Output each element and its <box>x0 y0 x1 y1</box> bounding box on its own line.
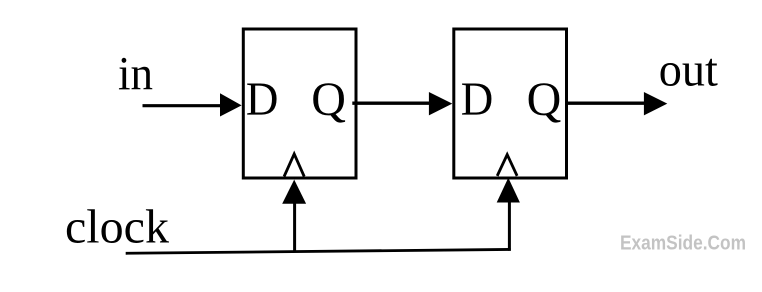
wire U2.Q to out <box>565 101 646 104</box>
svg-text:D: D <box>246 73 279 126</box>
D flip-flop U1 (box) <box>243 29 356 178</box>
arrowhead into U2 D pin <box>429 92 452 115</box>
svg-text:D: D <box>461 73 494 126</box>
arrowhead clock into U2 <box>497 178 520 203</box>
wire clock bus (horizontal) <box>126 249 511 253</box>
clock edge triangle U2 (open) <box>497 155 517 176</box>
svg-text:in: in <box>118 48 153 101</box>
svg-text:Q: Q <box>527 73 562 126</box>
wire clock branch to U2 (vertical) <box>508 200 511 251</box>
D flip-flop U2 (box) <box>454 29 567 178</box>
wire in to U1.D <box>143 104 223 107</box>
svg-text:out: out <box>659 44 719 97</box>
wire U1.Q to U2.D <box>352 101 431 104</box>
svg-text:Q: Q <box>311 73 346 126</box>
clock edge triangle U1 (open) <box>284 154 304 177</box>
svg-text:clock: clock <box>65 201 169 254</box>
arrowhead into U1 D pin <box>220 93 242 116</box>
svg-text:ExamSide.Com: ExamSide.Com <box>620 231 746 254</box>
arrowhead at out <box>644 92 667 115</box>
arrowhead clock into U1 <box>282 180 306 204</box>
wire clock branch to U1 (vertical) <box>293 201 296 252</box>
